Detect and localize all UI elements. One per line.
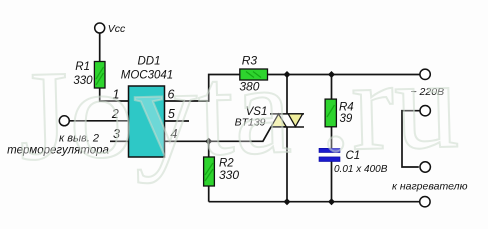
terminal bottom right bbox=[420, 197, 430, 207]
wire pin 6 to R3 bbox=[165, 75, 240, 102]
resistor R3 bbox=[240, 69, 268, 80]
node junction pin4/R2/gate bbox=[205, 138, 212, 145]
wire top rail R3 to 220V terminal bbox=[268, 74, 421, 76]
wire R1 to pin 1 bbox=[100, 88, 129, 101]
svg-text:Joyta: Joyta bbox=[17, 38, 293, 187]
svg-text:.ru: .ru bbox=[317, 33, 461, 179]
wire triac MT2 bbox=[286, 75, 288, 114]
node junction C1 bottom bbox=[328, 198, 335, 205]
node junction triac bottom bbox=[284, 198, 291, 205]
wire R4 to C1 bbox=[331, 127, 333, 149]
wire pin 3 stub bbox=[110, 140, 129, 142]
wire C1 to bottom rail bbox=[331, 162, 333, 202]
terminal thermostat input bbox=[59, 116, 69, 126]
transistor Q1 triac VS1 BT139 bbox=[270, 114, 304, 127]
wire Vcc stem bbox=[99, 33, 101, 61]
wire R2 top bbox=[208, 141, 210, 157]
resistor R1 bbox=[94, 62, 105, 89]
wire pin 4 to gate bbox=[165, 127, 272, 141]
wire R2 to bottom rail bbox=[208, 186, 210, 202]
wire heater bracket bbox=[402, 111, 420, 167]
capacitor C1 bbox=[319, 148, 340, 161]
wire bottom rail bbox=[209, 201, 420, 203]
terminal heater bottom bbox=[420, 162, 430, 172]
watermark Joyta.ru bbox=[17, 33, 461, 187]
wire terminal to pin 2 bbox=[69, 120, 128, 122]
terminal ~220V bbox=[420, 69, 430, 79]
terminal heater top bbox=[420, 106, 430, 116]
resistor R4 bbox=[325, 99, 336, 127]
node junction R4 top bbox=[328, 71, 335, 78]
node junction R3/triac top bbox=[284, 71, 291, 78]
wire R4 top bbox=[331, 75, 333, 100]
resistor R2 bbox=[204, 157, 215, 186]
terminal Vcc bbox=[95, 23, 105, 33]
svg-text:к нагревателю: к нагревателю bbox=[392, 181, 468, 193]
wire pin 5 stub bbox=[165, 120, 190, 122]
wire triac MT1 to bottom rail bbox=[286, 127, 288, 202]
op-amp U1 body (optocoupler DD1 MOC3041) bbox=[129, 86, 165, 157]
svg-text:Vcc: Vcc bbox=[108, 23, 126, 35]
